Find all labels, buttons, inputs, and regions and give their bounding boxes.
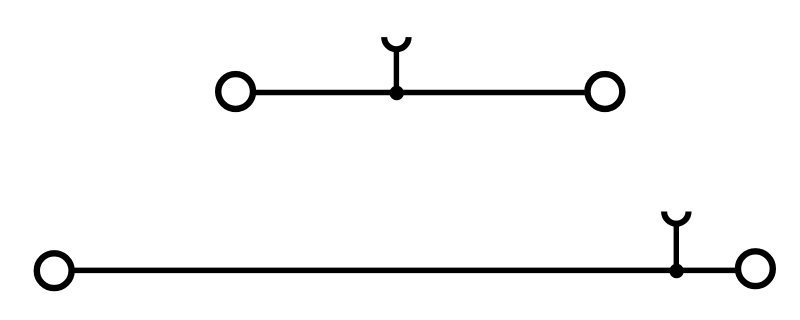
wire (upper tap stem)	[394, 49, 399, 93]
wire (lower tap stem)	[674, 223, 679, 271]
terminal circle 1 (upper left)	[218, 74, 253, 109]
test tap fork (upper)	[384, 37, 408, 49]
terminal circle 3 (lower left)	[37, 253, 72, 288]
wire (upper level, terminal 1 to terminal 2)	[254, 90, 587, 96]
test tap fork (lower)	[664, 212, 688, 224]
node (lower junction)	[669, 264, 683, 278]
wire (lower level, terminal 3 to terminal 4)	[72, 268, 737, 274]
node (upper junction)	[390, 86, 404, 100]
terminal circle 4 (lower right)	[738, 251, 773, 286]
terminal circle 2 (upper right)	[588, 74, 623, 109]
